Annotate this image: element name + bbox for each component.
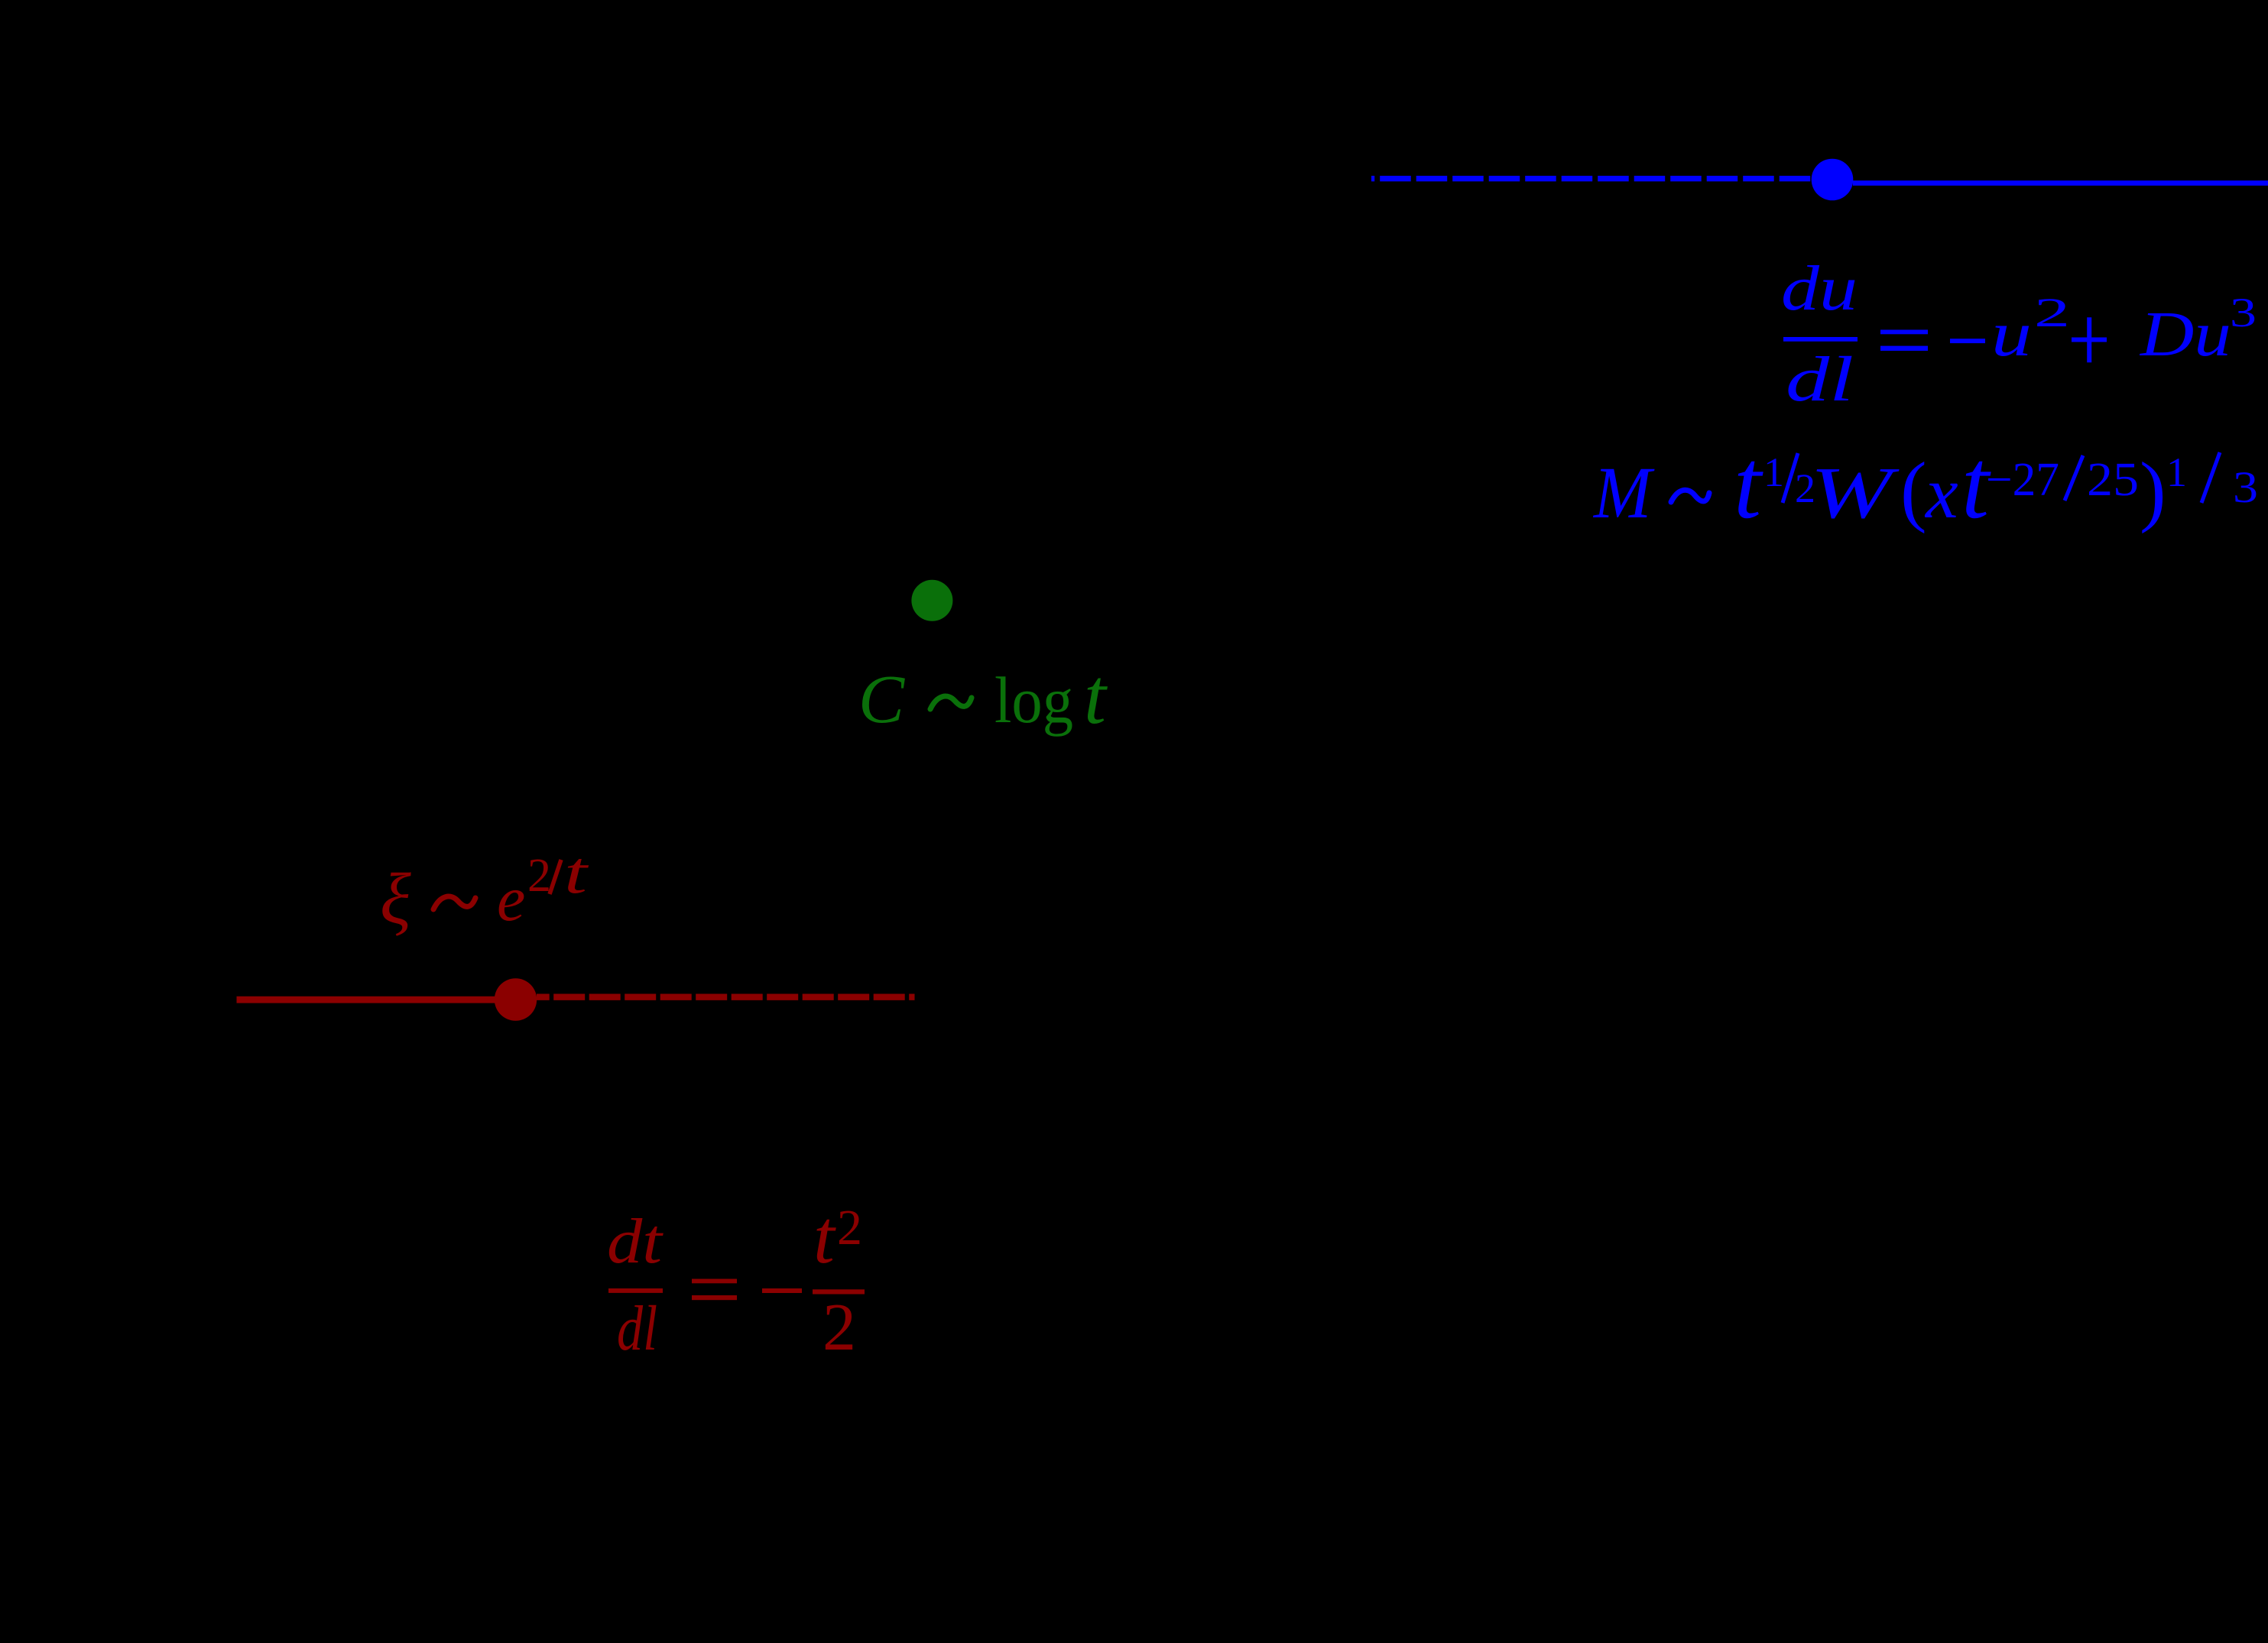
svg-text:dt: dt (607, 1206, 664, 1277)
red fixed point dot (495, 978, 537, 1020)
svg-text:dl: dl (1786, 344, 1854, 415)
svg-text:2: 2 (2034, 290, 2070, 335)
red RG equation dt/dl = -t^2/2 (607, 1194, 865, 1365)
svg-text:(: ( (1900, 446, 1927, 534)
svg-text:log: log (994, 663, 1073, 737)
blue solid flow line (right of fixed point, to edge) (1853, 180, 2268, 186)
red dashed flow line (right of fixed point) (537, 993, 915, 1000)
svg-text:e: e (497, 864, 525, 935)
svg-text:dl: dl (617, 1293, 657, 1364)
svg-text:M: M (1592, 453, 1655, 534)
svg-text:3: 3 (2233, 462, 2258, 512)
red correlation length label xi ~ e^(2/t) (380, 839, 589, 939)
blue dashed flow line (left of strong-coupling fixed point) (1371, 176, 1812, 181)
svg-text:du: du (1781, 253, 1858, 324)
green label C ~ log t (858, 653, 1108, 740)
svg-text:t: t (1084, 653, 1108, 740)
blue fixed point dot (1812, 159, 1854, 201)
svg-text:t: t (1734, 429, 1763, 540)
svg-text:): ) (2140, 446, 2166, 534)
svg-text:1: 1 (1763, 449, 1784, 495)
svg-text:2: 2 (823, 1291, 856, 1365)
svg-text:3: 3 (2230, 290, 2257, 335)
svg-text:C: C (858, 662, 905, 737)
red solid flow line (left of KT transition fixed point) (237, 996, 497, 1003)
blue magnetization scaling label M ~ t^(1/2) W(x t^(-27/25))^(1/3) (1592, 429, 2258, 540)
svg-text:−27: −27 (1986, 454, 2059, 506)
svg-text:t: t (564, 839, 589, 906)
svg-text:Du: Du (2140, 299, 2231, 370)
svg-text:u: u (1991, 299, 2032, 370)
blue RG equation du/dl = -u^2 + Du^3 (1781, 253, 2257, 415)
svg-text:x: x (1924, 452, 1958, 533)
svg-text:t: t (813, 1194, 836, 1279)
svg-text:25: 25 (2087, 454, 2139, 506)
svg-text:2: 2 (837, 1200, 862, 1256)
green Kosterlitz-Thouless fixed point dot (911, 580, 952, 621)
svg-text:2: 2 (527, 850, 551, 902)
svg-text:1: 1 (2166, 449, 2187, 495)
svg-text:ξ: ξ (380, 858, 411, 939)
svg-text:W: W (1810, 452, 1900, 533)
